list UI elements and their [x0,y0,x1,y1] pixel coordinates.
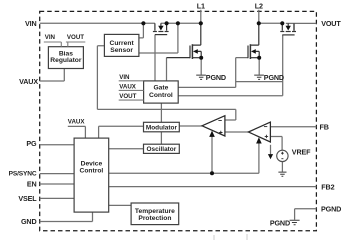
svg-text:VAUX: VAUX [119,84,137,91]
svg-text:VREF: VREF [292,147,311,156]
svg-text:VOUT: VOUT [67,34,84,41]
svg-text:Modulator: Modulator [146,125,178,132]
svg-text:EN: EN [27,179,37,188]
svg-text:L1: L1 [197,1,205,10]
svg-text:GND: GND [21,217,37,226]
svg-text:PS/SYNC: PS/SYNC [9,170,37,177]
svg-text:VOUT: VOUT [119,93,136,100]
svg-text:Regulator: Regulator [50,57,82,64]
svg-text:L2: L2 [255,1,263,10]
svg-text:FB: FB [320,123,329,132]
svg-text:PGND: PGND [321,205,341,214]
svg-text:Control: Control [149,92,173,99]
svg-text:VIN: VIN [25,19,37,28]
svg-text:VIN: VIN [119,74,130,81]
svg-text:PG: PG [26,139,37,148]
svg-text:Control: Control [80,168,104,175]
svg-text:VOUT: VOUT [321,19,341,28]
svg-text:FB2: FB2 [321,183,334,192]
svg-text:VAUX: VAUX [19,77,38,86]
svg-text:VSEL: VSEL [18,194,37,203]
svg-text:Gate: Gate [153,85,168,92]
svg-text:VIN: VIN [45,34,56,41]
svg-text:Protection: Protection [138,215,171,222]
svg-text:Current: Current [110,40,135,47]
svg-text:VAUX: VAUX [68,118,86,125]
svg-text:Temperature: Temperature [135,208,175,215]
svg-text:PGND: PGND [206,73,226,82]
svg-text:PGND: PGND [264,73,284,82]
svg-text:Oscillator: Oscillator [147,146,177,153]
svg-text:Device: Device [81,161,103,168]
svg-text:Sensor: Sensor [110,47,133,54]
svg-text:PGND: PGND [270,219,290,228]
